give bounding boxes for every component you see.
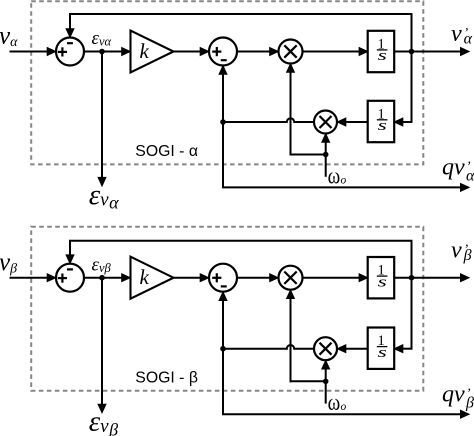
svg-text:v’α: v’α: [451, 21, 473, 47]
summing junction S1 (α): [56, 38, 84, 66]
minus sign S1 (α): [67, 42, 73, 44]
dashed boundary box SOGI-β: [31, 227, 423, 391]
svg-text:qv’β: qv’β: [442, 382, 474, 412]
node omega_o branch (α): [323, 152, 329, 158]
plus sign S1 (β): [58, 277, 67, 279]
wire v'_β node down to integrator I2: [411, 278, 413, 349]
multiplier M2 (α): [314, 111, 337, 134]
node omega_o branch (β): [323, 379, 329, 385]
svg-text:SOGI - β: SOGI - β: [135, 369, 198, 386]
svg-text:εvα: εvα: [89, 179, 119, 213]
wire summer S1 to gain k: [84, 277, 124, 279]
junction node qv'_α: [220, 119, 226, 125]
svg-text:SOGI - α: SOGI - α: [135, 143, 198, 160]
svg-text:s: s: [378, 344, 387, 361]
svg-text:vα: vα: [0, 23, 18, 51]
gain block k (β): [131, 257, 174, 299]
multiplier M1 (α): [279, 40, 303, 64]
svg-text:s: s: [378, 47, 387, 64]
wire feedback v'_α from output node to summer S1: [411, 14, 413, 52]
dashed boundary box SOGI-α: [31, 1, 423, 164]
wire multiplier M2 to junction (hops over omega branch): [223, 118, 314, 122]
plus sign S2 (α): [212, 50, 221, 52]
wire feedback v'_β from output node to summer S1: [411, 241, 413, 278]
svg-text:vβ: vβ: [0, 249, 17, 277]
svg-text:o: o: [341, 174, 347, 186]
wire summer S2 to multiplier M1: [237, 51, 272, 53]
wire summer S2 to multiplier M1: [237, 277, 272, 279]
multiplier M2 (β): [314, 337, 337, 360]
multiplier M1 (β): [279, 266, 303, 290]
svg-text:qv’α: qv’α: [442, 155, 474, 185]
svg-text:s: s: [378, 117, 387, 134]
summing junction S2 (α): [209, 38, 237, 66]
wire junction up to summer S2 minus input: [222, 299, 224, 349]
svg-text:εvα: εvα: [92, 28, 112, 49]
wire integrator I2 to multiplier M2: [344, 348, 368, 350]
summing junction S2 (β): [209, 264, 237, 292]
summing junction S1 (β): [56, 264, 84, 292]
gain block k (α): [131, 31, 174, 73]
wire multiplier M1 to integrator I1: [303, 51, 361, 53]
wire gain k to summer S2: [174, 51, 203, 53]
junction node qv'_β: [220, 346, 226, 352]
wire omega_o input to M2: [325, 141, 327, 177]
wire gain k to summer S2: [174, 277, 203, 279]
wire qv'_β output: [222, 349, 224, 415]
plus sign S2 (β): [212, 277, 221, 279]
wire epsilon_vα down output: [101, 52, 103, 178]
minus sign S1 (β): [67, 268, 73, 270]
wire omega_o branch to M1 (β): [290, 380, 326, 382]
plus sign S1 (α): [58, 51, 67, 53]
wire omega_o branch to M1 (α): [290, 154, 326, 156]
svg-text:εvβ: εvβ: [92, 254, 112, 275]
svg-text:ω: ω: [328, 390, 341, 416]
integrator block 1/s I1 (α): [368, 31, 395, 72]
svg-text:k: k: [140, 39, 150, 63]
wire integrator I1 to v'_β output: [394, 277, 462, 279]
wire input v_α to summer S1: [10, 51, 50, 53]
wire integrator I2 to multiplier M2: [344, 121, 368, 123]
minus sign S2 (β): [221, 285, 227, 287]
wire junction up to summer S2 minus input: [222, 73, 224, 123]
svg-text:o: o: [341, 401, 347, 413]
node v'_α: [409, 49, 415, 55]
node v'_β: [409, 275, 415, 281]
wire epsilon_vβ down output: [101, 278, 103, 405]
wire multiplier M2 to junction (hops over omega branch): [223, 345, 314, 349]
integrator block 1/s I1 (β): [368, 257, 395, 298]
wire multiplier M1 to integrator I1: [303, 277, 361, 279]
svg-text:ω: ω: [328, 163, 341, 189]
integrator block 1/s I2 (β): [368, 328, 395, 369]
node epsilon_vα: [99, 49, 105, 55]
wire integrator I1 to v'_α output: [394, 51, 462, 53]
minus sign S2 (α): [221, 59, 227, 61]
svg-text:s: s: [378, 273, 387, 290]
node epsilon_vβ: [99, 275, 105, 281]
wire v'_α node down to integrator I2: [411, 52, 413, 123]
integrator block 1/s I2 (α): [368, 101, 395, 142]
svg-text:v’β: v’β: [451, 238, 472, 264]
wire summer S1 to gain k: [84, 51, 124, 53]
wire input v_β to summer S1: [10, 277, 50, 279]
wire omega_o input to M2: [325, 367, 327, 403]
wire qv'_α output: [222, 122, 224, 187]
svg-text:k: k: [140, 265, 150, 289]
